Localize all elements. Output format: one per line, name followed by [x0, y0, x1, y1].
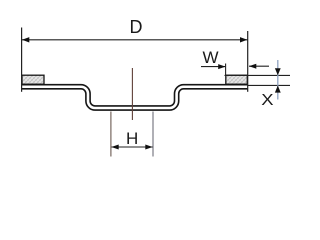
dimension line X vertical	[277, 60, 279, 100]
arrowhead W left	[218, 64, 225, 69]
extension line H right	[152, 112, 154, 157]
left pad (hatched rim cross-section)	[22, 75, 44, 84]
sheet profile outer (cross-section strip of the part)	[22, 87, 248, 108]
reference line X top (pad top surface extended)	[225, 74, 291, 76]
svg-text:X: X	[261, 92, 274, 109]
reference line X bottom (sheet top surface extended)	[248, 84, 291, 86]
leader line W left	[201, 66, 225, 68]
arrowhead H right	[145, 145, 152, 150]
dimension line H	[112, 146, 153, 148]
center line	[131, 68, 133, 120]
sheet profile inner white core	[22, 87, 248, 108]
extension line right (D)	[247, 31, 249, 92]
arrowhead W right	[249, 64, 256, 69]
leader line W right	[249, 65, 269, 67]
extension line left (D)	[21, 28, 23, 92]
arrowhead H left	[111, 145, 118, 150]
svg-text:D: D	[130, 17, 143, 37]
arrowhead D left	[22, 37, 29, 42]
svg-text:H: H	[126, 129, 138, 148]
arrowhead X up	[275, 86, 281, 93]
dimension line D	[22, 39, 248, 41]
arrowhead X down	[275, 68, 281, 75]
extension line H left	[110, 112, 112, 157]
extension line W (left edge of right pad)	[225, 64, 227, 76]
svg-text:W: W	[203, 48, 219, 67]
arrowhead D right	[240, 37, 247, 42]
right pad (hatched rim cross-section)	[226, 75, 248, 84]
